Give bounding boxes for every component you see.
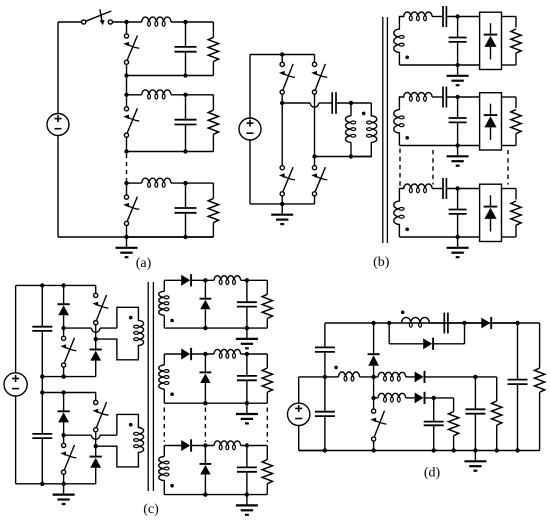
node (b) s2 top	[455, 95, 459, 99]
switch S0 blade	[86, 11, 112, 21]
inductor L1 of (d)	[339, 372, 360, 377]
node (d) top cap junction	[462, 321, 466, 325]
dashed continuation (c) right	[266, 408, 268, 442]
phase dot primary 1 (c)	[129, 316, 133, 320]
transformer secondary winding 3 of (c)	[163, 446, 165, 457]
wire (a) stage3 cap stub top	[185, 183, 187, 208]
wire (d) right rail lower	[539, 392, 541, 450]
wire (a) stage2 right rail upper	[212, 95, 214, 110]
wire (d) left rail mid	[324, 352, 326, 412]
inductor L2 of (a)	[142, 90, 171, 95]
node (d) switch bottom	[371, 448, 375, 452]
wire (a) top from source to switch S0	[58, 21, 82, 23]
svg-text:(d): (d)	[424, 465, 441, 480]
wire (d) L1 lead	[325, 376, 339, 378]
wire (b) s3 shunt cap lower	[457, 214, 459, 237]
node (d) center mid	[371, 375, 375, 379]
wire (d) L4 to cap	[429, 322, 444, 324]
wire (a) stage2 cap stub top	[185, 95, 187, 120]
dashed continuation (c) mid	[204, 408, 206, 442]
phase dot secondary 1 (c)	[170, 319, 174, 323]
wire (a) stage1 switch stub bottom	[126, 64, 128, 75]
wire (c) s2 bottom	[164, 402, 267, 404]
node (d) out cap bottom	[515, 448, 519, 452]
wire (d) bottom	[299, 450, 540, 452]
node (d) center w2	[371, 396, 375, 400]
rectifier box U2 of (b)	[480, 93, 502, 150]
node (c) cell2 term2	[94, 444, 98, 448]
wire (b) s1 bottom	[399, 64, 479, 66]
wire (c) cell1 bottom	[42, 376, 95, 378]
resistor R3 of (a)	[208, 198, 218, 222]
node (c) s3 diode junction	[203, 443, 207, 447]
phase dot secondary 1 (b)	[405, 56, 409, 60]
wire (a) stage3 right rail upper	[212, 183, 214, 198]
capacitor C1 of (c)	[32, 326, 52, 328]
diode D21 of (c)	[58, 410, 70, 412]
ground of (b) stage2	[457, 146, 459, 157]
resistor R1 of (b)	[511, 29, 521, 53]
inductor L2 of (d)	[378, 372, 406, 377]
wire (b) s1 load to box bottom	[515, 53, 517, 65]
wire (d) D3 to load	[425, 397, 454, 399]
inductor L2 of (c)	[214, 349, 240, 354]
node (a) stage1 cap bottom	[183, 73, 187, 77]
capacitor Cd2 of (d)	[315, 411, 335, 413]
resistor R2 of (a)	[208, 110, 218, 134]
diode D5 of (d)	[481, 318, 490, 329]
node (c) cell2 top diode	[61, 390, 65, 394]
wire (a) left rail lower	[57, 136, 59, 238]
switch S0 terminal right	[108, 20, 112, 24]
wire (b) S1 upper stub	[281, 55, 283, 63]
node (b) primary bottom left	[349, 154, 353, 158]
wire (c) s3 cap stub top	[246, 446, 248, 468]
node (a) top switch leg	[124, 20, 128, 24]
node (a) stage3 top	[124, 181, 128, 185]
switch S3 of (b) lower	[280, 166, 284, 170]
wire (b) s2 shunt cap stub	[457, 97, 459, 118]
wire (a) stage3 right rail lower	[212, 223, 214, 237]
wire (d) cap1 rail lower	[474, 414, 476, 451]
node (a) stage2 cap top	[183, 93, 187, 97]
wire (d) out diode lead	[465, 322, 482, 324]
wire (d) w2 lead	[374, 397, 379, 399]
diode D1s series of (c)	[181, 275, 190, 286]
resistor R1 of (d)	[492, 401, 502, 425]
wire (d) R2 rail lower	[453, 436, 455, 451]
wire (c) cell1 diode to node	[63, 315, 65, 328]
diode D11 of (c)	[58, 303, 70, 305]
wire (b) s1 box to load top	[502, 16, 517, 18]
wire (b) bottom	[250, 203, 315, 205]
wire (d) right rail upper	[539, 323, 541, 368]
wire (a) stage3 inductor to load	[171, 182, 213, 184]
ground of (b) stage3	[457, 237, 459, 248]
inductor L3 of (c)	[214, 441, 240, 446]
svg-text:(a): (a)	[136, 256, 152, 271]
capacitor Co2 of (d)	[424, 421, 444, 423]
capacitor Cf3 of (b)	[449, 209, 467, 211]
wire (c) left rail lower	[15, 396, 17, 484]
node (b) leg1 midpoint	[280, 101, 284, 105]
node (a) stage2 bottom left	[124, 149, 128, 153]
node (d) R2 bottom	[451, 448, 455, 452]
wire (b) s3 box to load top	[502, 188, 517, 190]
inductor L1 of (c)	[214, 276, 240, 281]
wire (d) cap1 rail upper	[474, 377, 476, 409]
wire (b) s3 bottom	[399, 236, 479, 238]
diode D1 of (d)	[368, 353, 380, 355]
node (d) w2 cap junction	[432, 396, 436, 400]
wire (c) s3 inductor to load	[241, 445, 268, 447]
wire hop (c) cell1	[92, 328, 100, 332]
wire (c) s2 shunt diode lower	[204, 383, 206, 403]
node (c) bottom switch rail	[61, 482, 65, 486]
switch S of (d)	[372, 409, 376, 413]
wire (d) D2 to load	[425, 376, 497, 378]
diode D2f freewheel of (c)	[200, 371, 212, 373]
dashed continuation (c) left	[163, 408, 165, 442]
inductor L3 of (d)	[378, 393, 406, 398]
wire (a) stage2 switch stub bottom	[126, 137, 128, 151]
wire (c) cell2 right leg	[95, 432, 97, 457]
ground of (b) stage1	[457, 65, 459, 76]
phase dot L1 (d)	[334, 366, 338, 370]
phase dot primary (b)	[362, 112, 366, 116]
wire (d) out cap rail upper	[517, 323, 519, 380]
wire (d) L3 to diode	[406, 397, 415, 399]
diode D12 of (c)	[90, 349, 102, 351]
wire (c) s3 bottom	[164, 494, 267, 496]
node (d) left rail tap	[323, 375, 327, 379]
wire (a) stage2 cap stub bottom	[185, 125, 187, 152]
node (a) stage3 cap bottom	[183, 235, 187, 239]
wire (c) s1 inductor to load	[241, 279, 268, 281]
wire (b) primary bottom	[315, 156, 372, 158]
wire hop (c) cell2	[92, 435, 100, 439]
wire (a) stage2 right rail lower	[212, 134, 214, 151]
wire (b) s2 coil to cap	[432, 96, 443, 98]
wire (c) s1 cap stub bottom	[246, 307, 248, 329]
switch S2 of (a)	[124, 107, 128, 111]
ground of (b) bridge	[281, 204, 283, 215]
resistor R3 of (d)	[534, 368, 544, 392]
wire (d) center vertical lower	[373, 366, 375, 409]
wire (d) cap2 rail lower	[433, 425, 435, 450]
wire (c) s3 right rail lower	[266, 484, 268, 495]
wire (c) s3 top lead	[164, 445, 181, 447]
capacitor Co3 of (d)	[508, 379, 528, 381]
node (c) s3 shunt diode bottom	[203, 492, 207, 496]
wire (a) stage1 switch stub top	[126, 22, 128, 34]
switch S1b of (c)	[62, 336, 66, 340]
wire (a) stage1 bottom	[127, 75, 214, 77]
node (a) stage3 bottom left	[124, 235, 128, 239]
ground of (c) stage1	[246, 328, 248, 339]
wire (a) stage3 switch stub bottom	[126, 226, 128, 238]
wire (c) cell2 mid to hop	[64, 434, 92, 436]
wire (b) S4 lower stub	[314, 196, 316, 204]
node (c) cell2 top cap	[40, 390, 44, 394]
node (c) s2 diode junction	[203, 352, 207, 356]
switch S4 of (b) lower	[312, 166, 316, 170]
wire (c) cell1 switch to bottom	[63, 367, 65, 377]
node (c) top cap rail	[40, 283, 44, 287]
inductor L1 of (a)	[142, 17, 171, 22]
phase dot L4 (d)	[401, 311, 405, 315]
wire (c) s3 shunt diode lower	[204, 475, 206, 495]
capacitor C3s of (c)	[237, 466, 257, 468]
wire (a) stage3 cap stub bottom	[185, 213, 187, 237]
wire (c) s1 right rail lower	[266, 319, 268, 329]
node (a) stage2 cap bottom	[183, 149, 187, 153]
wire (c) s2 inductor to load	[241, 353, 268, 355]
node (c) cell1 bottom switch	[61, 374, 65, 378]
wire (a) stage3 switch stub top	[126, 183, 128, 195]
node (d) left rail bottom	[323, 448, 327, 452]
wire (b) s2 load to box bottom	[515, 134, 517, 146]
capacitor C2 of (c)	[32, 433, 52, 435]
wire (b) leg1 mid to lower switch	[281, 103, 283, 166]
node (c) s2 shunt diode bottom	[203, 401, 207, 405]
ground of (c) stage2	[246, 403, 248, 414]
wire (c) cell2 switch to bottom	[63, 474, 65, 484]
capacitor Cd1 of (d)	[315, 346, 335, 348]
wire (b) S2 upper stub	[314, 55, 316, 63]
phase dot secondary 3 (c)	[170, 484, 174, 488]
wire (c) top	[16, 284, 96, 286]
phase dot secondary 3 (b)	[405, 228, 409, 232]
capacitor Cs1 series of (b)	[442, 6, 444, 27]
wire (c) s2 cap stub bottom	[246, 380, 248, 403]
source V4 of (d)	[288, 403, 310, 425]
wire (a) stage1-stage2 link	[126, 76, 128, 95]
rectifier box U1 of (b)	[480, 12, 502, 69]
wire (a) dashed continuation	[126, 154, 128, 182]
wire (d) cap2 rail upper	[433, 398, 435, 422]
wire (c) cell1 switch stub	[63, 328, 65, 336]
wire (d) R1 rail	[496, 377, 498, 401]
node (b) s1 top	[455, 14, 459, 18]
wire (d) center vertical upper	[373, 323, 375, 354]
wire (b) s3 load to box bottom	[515, 225, 517, 237]
node (b) s3 top	[455, 186, 459, 190]
wire (a) stage1 right rail upper	[212, 22, 214, 37]
node (a) stage1 bottom left	[124, 73, 128, 77]
node (a) stage1 cap top	[183, 20, 187, 24]
source V3 of (c)	[4, 373, 27, 396]
node (c) s1 diode junction	[203, 278, 207, 282]
wire (d) R1 lower	[496, 425, 498, 450]
wire (b) s2 bottom	[399, 145, 479, 147]
wire (b) cap to primary	[336, 102, 371, 104]
node (b) s2 bottom	[455, 143, 459, 147]
diode D2 of (d)	[415, 372, 424, 383]
node (c) s1 cap bottom	[245, 326, 249, 330]
wire (c) cell1 right leg bottom	[95, 361, 97, 377]
node (d) top branch split	[387, 321, 391, 325]
transformer core of (b)	[382, 17, 384, 243]
wire (a) stage1 right rail lower	[212, 62, 214, 76]
resistor R2 of (b)	[511, 110, 521, 134]
node (b) s3 bottom	[455, 235, 459, 239]
capacitor Cs2 series of (b)	[442, 87, 444, 108]
wire (c) cell1 diode stub	[63, 285, 65, 304]
wire (c) s1 top lead	[164, 279, 181, 281]
node (b) s1 bottom	[455, 63, 459, 67]
wire (d) out cap rail lower	[517, 384, 519, 450]
wire (b) leg2 through	[314, 94, 316, 165]
capacitor Cs3 series of (b)	[442, 178, 444, 199]
capacitor C2 of (a)	[175, 119, 197, 121]
resistor R1 of (a)	[208, 37, 218, 61]
wire (d) switch to bottom	[373, 441, 375, 450]
wire (b) left rail lower	[249, 140, 251, 204]
capacitor Cb series of (b)	[331, 92, 333, 114]
wire (c) cell2 top	[42, 392, 95, 394]
node (d) top out junction	[515, 321, 519, 325]
node (c) cell1 mid	[61, 326, 65, 330]
wire (a) stage3 bottom	[127, 236, 214, 238]
diode D2 of (b)	[490, 104, 492, 115]
wire (d) left rail lower	[324, 416, 326, 450]
transformer core of (c)	[147, 282, 149, 491]
wire (b) s1 shunt cap lower	[457, 42, 459, 65]
switch S1 of (a)	[124, 34, 128, 38]
wire (a) stage3 top feed	[127, 182, 142, 184]
node (c) cell1 bottom cap	[40, 374, 44, 378]
wire (c) cell1 mid to hop	[64, 327, 92, 329]
wire (c) cell2 right leg top	[95, 393, 97, 401]
capacitor C1 of (a)	[175, 46, 197, 48]
wire (b) s2 box to load top	[502, 96, 517, 98]
ground of (d)	[474, 451, 476, 462]
node (b) bottom leg1	[280, 202, 284, 206]
capacitor Cf2 of (b)	[449, 117, 467, 119]
wire (d) top	[325, 322, 540, 324]
wire (c) s2 top lead	[164, 353, 181, 355]
wire (b) s3 shunt cap stub	[457, 189, 459, 210]
wire (b) top	[250, 54, 315, 56]
wire (a) bottom return	[58, 236, 213, 238]
ground of (c)	[63, 484, 65, 495]
wire (b) s3 cap to box	[446, 188, 479, 190]
wire (c) left rail upper	[15, 285, 17, 372]
transformer secondary winding 1 of (c)	[163, 280, 165, 291]
phase dot primary 2 (c)	[129, 423, 133, 427]
diode D1 of (b)	[490, 23, 492, 34]
diode D2s series of (c)	[181, 349, 190, 360]
wire (c) s3 diode to inductor	[191, 445, 214, 447]
wire (b) s2 shunt cap lower	[457, 122, 459, 145]
inductor L4 of (d)	[402, 317, 430, 323]
wire (c) cell2 right leg bottom	[95, 468, 97, 484]
source V1 of (a)	[47, 114, 69, 136]
wire (c) cell1 right leg	[95, 325, 97, 350]
wire (c) s2 right rail lower	[266, 392, 268, 403]
node (c) s2 cap bottom	[245, 401, 249, 405]
dashed continuation (b) left	[399, 149, 401, 187]
node (d) cap2 bottom	[432, 448, 436, 452]
wire (d) branch lower right	[433, 343, 464, 345]
inductor Lm magnetizing of (b)	[350, 103, 352, 116]
phase dot secondary 2 (b)	[405, 136, 409, 140]
node (c) bottom cap rail	[40, 482, 44, 486]
wire (c) s1 diode to inductor	[191, 279, 214, 281]
wire (c) cap rail	[41, 285, 43, 326]
diode D4 of (d)	[423, 338, 432, 349]
transformer primary winding of (b)	[351, 103, 377, 157]
wire (a) stage1 cap stub top	[185, 22, 187, 47]
wire (b) S3 lower stub	[281, 196, 283, 204]
wire (c) s1 right rail upper	[266, 280, 268, 294]
wire (c) s2 right rail upper	[266, 354, 268, 368]
node (a) stage3 cap top	[183, 181, 187, 185]
wire (c) cell1 right leg top	[95, 285, 97, 293]
node (c) s3 cap bottom	[245, 492, 249, 496]
node (d) cap1 bottom	[473, 448, 477, 452]
switch S1a of (c)	[94, 293, 98, 297]
wire (d) branch lower left	[389, 343, 423, 345]
node (a) stage2 top	[124, 93, 128, 97]
diode D22 of (c)	[90, 456, 102, 458]
wire (c) s1 cap stub top	[246, 280, 248, 302]
resistor R3 of (c)	[262, 460, 272, 484]
phase dot secondary 2 (c)	[170, 392, 174, 396]
wire (b) mid to hop	[282, 102, 310, 104]
node (d) rail1 cap top	[473, 375, 477, 379]
wire (b) hop to cap	[319, 102, 333, 104]
dashed continuation (b) right	[507, 150, 509, 185]
switch S2b of (c)	[62, 443, 66, 447]
wire (c) cell2 hop to winding	[100, 434, 117, 436]
capacitor C2s of (c)	[237, 375, 257, 377]
wire (a) stage1 inductor to load	[171, 21, 213, 23]
source V2 of (b)	[239, 118, 261, 140]
node (c) s2 cap top	[245, 352, 249, 356]
switch S2 of (b) upper	[312, 62, 316, 66]
wire (c) cell2 diode stub	[63, 393, 65, 412]
svg-text:(c): (c)	[143, 502, 159, 517]
transformer primary winding 1 of (c)	[96, 307, 144, 360]
resistor R2 of (c)	[262, 368, 272, 392]
inductor L3 of (a)	[142, 178, 171, 183]
transformer secondary winding 2 of (b)	[394, 92, 432, 145]
resistor R2 of (d)	[448, 412, 458, 436]
resistor R3 of (b)	[511, 201, 521, 225]
wire (a) left rail upper	[57, 22, 59, 114]
transformer primary winding 2 of (c)	[96, 414, 144, 467]
wire (c) s2 diode to inductor	[191, 353, 214, 355]
node (b) top leg1	[280, 52, 284, 56]
diode D3s series of (c)	[181, 440, 190, 451]
wire (c) bottom	[16, 483, 96, 485]
diode D3 of (b)	[490, 195, 492, 206]
wire (c) cell2 switch stub	[63, 435, 65, 443]
wire (d) left rail upper	[324, 323, 326, 347]
wire (b) s1 shunt cap stub	[457, 17, 459, 38]
dashed continuation (b) mid	[432, 150, 434, 185]
wire (b) s3 coil to cap	[432, 188, 443, 190]
node (c) cell1 term2	[94, 337, 98, 341]
switch S2a of (c)	[94, 400, 98, 404]
switch S1 of (b) upper	[280, 62, 284, 66]
wire (a) stage2 top feed	[127, 94, 142, 96]
capacitor Co1 of (d)	[465, 408, 485, 410]
node (c) s1 shunt diode bottom	[203, 326, 207, 330]
wire (d) R2 rail upper	[453, 398, 455, 412]
